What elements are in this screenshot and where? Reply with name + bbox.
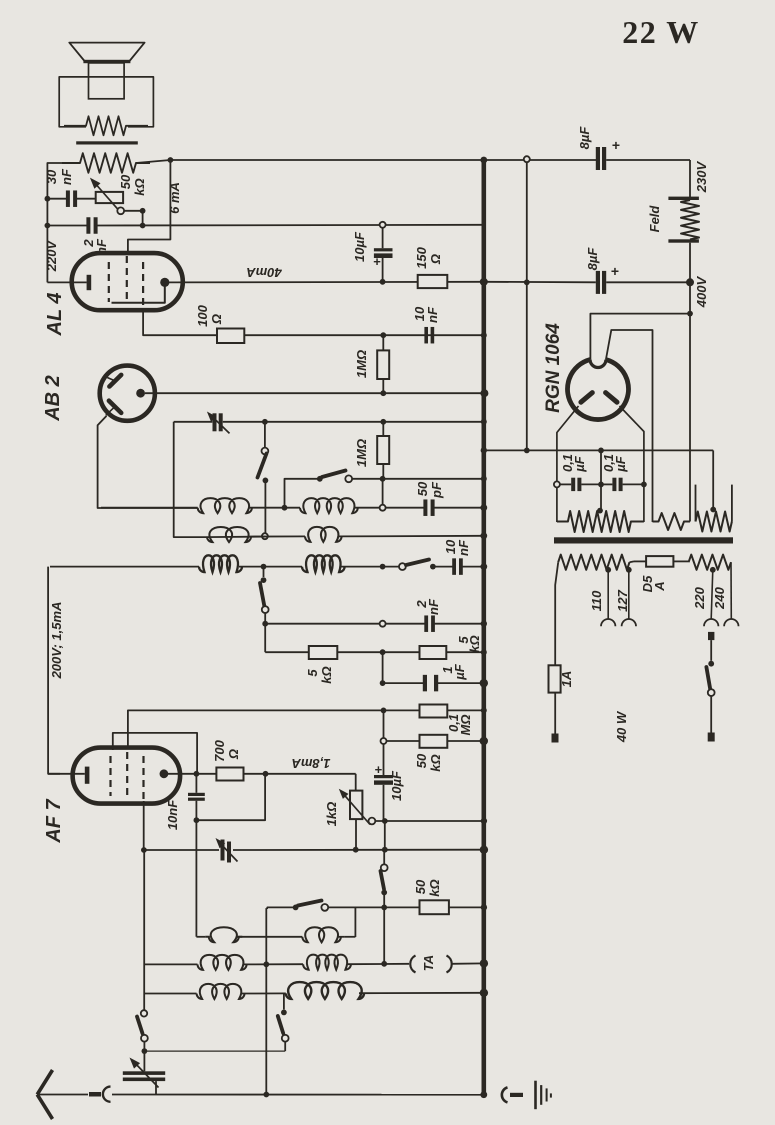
svg-text:kΩ: kΩ	[427, 879, 442, 896]
switch S4 below row C	[263, 567, 265, 577]
svg-text:50: 50	[415, 481, 430, 496]
bus node row K	[480, 989, 488, 997]
svg-text:MΩ: MΩ	[458, 715, 473, 736]
wire row D	[265, 623, 424, 625]
wire det row left corner	[266, 907, 268, 909]
coil L6b	[286, 982, 364, 999]
svg-text:50: 50	[413, 879, 428, 894]
bus node 50k	[480, 737, 488, 745]
tube AF7 anode node	[160, 769, 169, 778]
svg-text:kΩ: kΩ	[319, 666, 334, 683]
svg-text:1MΩ: 1MΩ	[354, 350, 369, 378]
node row J mid	[263, 961, 269, 967]
tube AF7 grid3 dashed	[142, 756, 144, 800]
tube AF7 grid1 dashed	[109, 756, 111, 796]
node heater mid	[524, 448, 530, 454]
node det row	[381, 905, 387, 911]
transformer primary winding left	[558, 555, 629, 570]
node AF7 anode junction	[194, 771, 200, 777]
svg-text:nF: nF	[426, 598, 441, 615]
wire 2nF row to bus	[47, 225, 87, 227]
tube AF7 envelope	[73, 748, 181, 804]
wire lower left vertical	[143, 850, 145, 1010]
svg-text:240: 240	[712, 586, 727, 609]
ground connector	[502, 1087, 508, 1102]
wire row K left stub	[144, 993, 196, 995]
resistor R 50k diode load	[420, 900, 449, 914]
wire anode lead right	[620, 406, 644, 522]
svg-text:+: +	[375, 762, 383, 777]
tube AL4 grid 1 dashed	[108, 262, 110, 302]
bus chassis line	[481, 159, 486, 1096]
output transformer primary winding	[62, 153, 150, 173]
loudspeaker diaphragm bar	[83, 60, 130, 63]
node 0.1uF centre	[598, 482, 604, 488]
wire 10nF bypass loop	[196, 777, 265, 821]
svg-text:6 mA: 6 mA	[167, 182, 182, 214]
wire heater rail horizontal	[484, 449, 713, 451]
potentiometer R 50k arrow	[94, 182, 121, 212]
node anode cap left	[554, 481, 560, 487]
tube AL4 cathode	[87, 275, 92, 290]
resistor R 100 ohm	[217, 329, 244, 344]
svg-text:8µF: 8µF	[585, 247, 600, 271]
svg-text:µF: µF	[613, 455, 628, 472]
tube RGN1064 filament notch	[590, 360, 606, 368]
wire wiper row to bus	[375, 820, 484, 822]
wire oscillator top row	[174, 421, 213, 423]
wire 230V right leg	[689, 160, 691, 197]
bus node heater	[481, 447, 487, 453]
wire AF7 anode row	[168, 773, 216, 775]
transformer HV winding	[557, 511, 644, 532]
svg-text:200V; 1,5mA: 200V; 1,5mA	[49, 602, 64, 680]
tap 240	[730, 562, 732, 618]
resistor R 5k right	[420, 646, 447, 659]
tube AL4 anode node	[160, 278, 169, 287]
node wiper junction	[140, 208, 146, 214]
node switch S1 top	[262, 419, 268, 425]
capacitor C 2nF IF	[424, 615, 428, 632]
svg-text:RGN 1064: RGN 1064	[543, 323, 564, 413]
svg-text:1,8mA: 1,8mA	[291, 756, 330, 771]
bus node row D	[481, 621, 487, 627]
wire 6mA grid feed	[128, 160, 170, 255]
wire row F AVC	[128, 710, 484, 748]
output transformer core	[76, 141, 138, 144]
switch S6	[293, 905, 299, 911]
trimmer capacitor padding	[221, 840, 225, 861]
potentiometer R 50k body	[96, 192, 123, 203]
coil L6a	[197, 984, 245, 999]
bus node 1uF	[480, 679, 488, 687]
capacitor C 10uF cathode	[374, 775, 393, 778]
wire row C (osc)	[50, 566, 199, 568]
wire TA to bus	[452, 962, 484, 964]
svg-text:Feld: Feld	[647, 205, 662, 233]
tap 127	[626, 567, 632, 573]
transformer heater winding set	[696, 512, 732, 532]
capacitor C 0.1uF left	[560, 483, 571, 485]
svg-text:700: 700	[212, 739, 227, 761]
switch S2	[317, 476, 323, 482]
transformer primary winding right	[689, 555, 731, 570]
coil L1a	[198, 498, 252, 513]
node HT tap	[597, 508, 603, 514]
node 1M2 top	[380, 419, 386, 425]
node row J right	[381, 961, 387, 967]
svg-text:230V: 230V	[694, 160, 709, 193]
terminal TA right	[447, 956, 452, 973]
transformer heater winding RGN	[653, 513, 691, 530]
mains connector 220	[708, 632, 714, 640]
node bottom wire	[263, 1092, 269, 1098]
wire row A (IF grid)	[101, 507, 198, 509]
capacitor C 8uF lower	[484, 281, 596, 284]
node row C right	[380, 564, 386, 570]
svg-text:127: 127	[615, 589, 630, 611]
bus node wiper	[481, 818, 487, 824]
wire switch link row	[144, 1050, 285, 1052]
wire filament lead left	[590, 314, 690, 360]
node 700ohm right	[263, 771, 269, 777]
bus node row C	[480, 563, 487, 570]
wire HT centre tap	[600, 450, 602, 510]
svg-text:µF: µF	[572, 455, 587, 472]
wire 400V to winding	[689, 314, 691, 522]
wire 1uF row	[382, 652, 384, 683]
coil L4b	[302, 927, 341, 942]
loudspeaker voice coil winding	[64, 116, 148, 135]
svg-text:kΩ: kΩ	[467, 635, 482, 652]
capacitor C 10nF osc	[452, 558, 456, 575]
svg-text:150: 150	[414, 246, 429, 268]
capacitor C 8uF upper	[596, 147, 600, 170]
loudspeaker voice-coil box	[89, 63, 125, 99]
svg-text:nF: nF	[425, 306, 440, 323]
terminal mains left	[552, 734, 559, 743]
bus node 100ohm row	[481, 332, 487, 338]
switch S5 AVC	[381, 864, 388, 871]
ground symbol	[534, 1081, 537, 1110]
svg-text:1MΩ: 1MΩ	[354, 439, 369, 467]
wire det riser	[354, 907, 356, 937]
tap 220	[710, 567, 716, 573]
capacitor C 0.1uF right	[612, 478, 616, 491]
wire row G 50k	[381, 738, 387, 744]
coil L2a	[207, 527, 251, 542]
svg-text:AF 7: AF 7	[43, 798, 65, 843]
node row H left	[141, 847, 147, 853]
trimmer capacitor upper	[213, 413, 217, 431]
node heater rail	[524, 279, 530, 285]
svg-text:220V: 220V	[44, 239, 59, 272]
tube AL4 anode plate	[112, 286, 165, 303]
svg-text:Ω: Ω	[209, 314, 224, 325]
tube AF7 grid2 dashed	[126, 752, 128, 796]
bus node B+	[480, 278, 488, 286]
node row E mid	[380, 649, 386, 655]
node row A riser	[282, 505, 288, 511]
resistor R 150 ohm	[418, 275, 448, 288]
resistor R 700 ohm	[216, 768, 243, 781]
trimmer capacitor antenna	[143, 1051, 145, 1071]
bus node row A	[480, 504, 487, 511]
coil L2b	[305, 527, 342, 542]
wire AB2 anode to bus	[145, 392, 485, 394]
coil L3b	[302, 555, 345, 572]
node row D mid	[380, 621, 386, 627]
wire filament lead right	[606, 330, 653, 522]
bus node row H	[480, 846, 488, 854]
wire top horizontal to rectifier	[136, 160, 171, 163]
capacitor C 10nF anode	[424, 327, 428, 344]
node 1M bottom	[380, 390, 386, 396]
wire row E	[265, 651, 309, 653]
transformer core bar	[554, 537, 733, 543]
svg-text:8µF: 8µF	[577, 126, 592, 150]
tube AB2 diode plate lower	[109, 401, 121, 413]
wire row D to row E leg	[264, 624, 266, 653]
node 10uF bottom	[380, 279, 386, 285]
svg-text:10µF: 10µF	[352, 231, 367, 262]
svg-text:50: 50	[414, 753, 429, 768]
wire AL4 screen to 100ohm	[143, 308, 217, 335]
resistor R 1M lower	[377, 436, 389, 464]
svg-text:1A: 1A	[559, 671, 574, 688]
svg-text:pF: pF	[429, 481, 444, 499]
wire row B	[206, 536, 265, 539]
resistor R 50k decoupling	[420, 735, 448, 748]
bus node TA	[480, 959, 488, 967]
wire AL4 anode to bus	[169, 281, 484, 284]
tube AB2 diode plate upper	[109, 375, 121, 387]
node HT centre	[598, 448, 604, 454]
wire row H AVC line	[144, 849, 219, 851]
tube AL4 grid 3 dashed	[142, 262, 144, 308]
bus node row B	[480, 532, 487, 539]
resistor Feld field coil	[668, 197, 699, 200]
svg-text:100: 100	[195, 304, 210, 326]
coil L5a	[198, 955, 247, 970]
svg-text:40mA: 40mA	[246, 265, 282, 280]
node 50pF left	[380, 505, 386, 511]
wire AB2 cathode to band filter	[98, 416, 198, 508]
winding stub right	[731, 485, 733, 522]
svg-text:kΩ: kΩ	[132, 178, 147, 195]
svg-text:AL 4: AL 4	[44, 293, 66, 337]
svg-text:AB 2: AB 2	[42, 375, 64, 422]
wire row I	[196, 936, 205, 938]
potentiometer R 50k wiper contact	[117, 207, 124, 214]
wire top row left leg	[174, 422, 206, 537]
coil L3a	[199, 555, 242, 572]
wire AF7 grid3 to row H	[143, 801, 145, 850]
svg-text:+: +	[611, 263, 619, 279]
bus node osc top	[481, 419, 487, 425]
capacitor C 1uF	[423, 675, 427, 692]
fuse 1A lead	[555, 562, 558, 665]
resistor R 0.1M	[420, 705, 448, 718]
svg-text:+: +	[373, 254, 381, 269]
svg-text:30: 30	[44, 169, 59, 184]
tube AL4 envelope	[72, 253, 183, 310]
capacitor C 10uF electrolytic	[374, 248, 393, 251]
wire lower right vertical	[265, 908, 267, 1094]
tube AB2 anode node	[136, 389, 145, 398]
svg-text:110: 110	[589, 590, 604, 611]
wire switch S2 row	[285, 479, 320, 508]
bus node row F	[481, 707, 487, 713]
node 10nF bottom	[194, 817, 200, 823]
loudspeaker horn	[69, 43, 144, 61]
capacitor C 2nF	[86, 217, 90, 234]
svg-text:A: A	[652, 581, 667, 591]
bus node det	[481, 904, 487, 910]
tube RGN1064 anode left	[581, 393, 592, 403]
tube AB2 envelope	[100, 366, 155, 421]
svg-text:Ω: Ω	[226, 749, 241, 760]
svg-text:Ω: Ω	[428, 254, 443, 265]
wire AF7 screen loop	[113, 733, 197, 774]
svg-text:10nF: 10nF	[165, 799, 180, 830]
svg-text:1kΩ: 1kΩ	[324, 802, 339, 827]
svg-text:40 W: 40 W	[614, 710, 629, 743]
node 100ohm / 1M junction	[380, 332, 386, 338]
potentiometer R 1k	[355, 774, 357, 791]
switch S3	[399, 563, 406, 570]
resistor R 5k left	[309, 646, 338, 659]
winding stub left	[695, 485, 697, 522]
antenna symbol	[37, 1070, 52, 1095]
coil L1b	[300, 498, 358, 513]
loudspeaker magnet box	[59, 77, 153, 127]
svg-text:µF: µF	[452, 663, 467, 680]
tube RGN1064 envelope	[567, 360, 628, 420]
svg-text:nF: nF	[59, 168, 74, 185]
wire row F to 10uF2	[383, 710, 385, 737]
fuse 1A	[549, 665, 561, 692]
wire 100ohm to bus	[244, 334, 483, 336]
node heater centre tap	[712, 450, 714, 509]
node 30nF row left	[45, 196, 51, 202]
switch S8 antenna 2	[283, 993, 285, 1009]
svg-text:+: +	[612, 137, 620, 153]
fuse D5A	[630, 560, 635, 563]
svg-text:50: 50	[118, 174, 133, 189]
terminal TA left	[410, 956, 415, 973]
tube RGN1064 anode right	[606, 393, 617, 403]
wire 200V cathode line	[48, 567, 60, 774]
coil L5b	[303, 955, 351, 970]
switch S7 antenna	[141, 1010, 147, 1016]
switch S1 wave band	[264, 424, 266, 448]
node S2/1M2	[380, 476, 386, 482]
wire 30nF row	[47, 198, 66, 200]
bus node top	[480, 157, 487, 164]
node output transformer / 6mA	[168, 157, 174, 163]
node row C switch	[261, 564, 267, 570]
antenna connector	[89, 1092, 101, 1097]
coil L4a	[205, 927, 242, 942]
node anode cap right	[641, 482, 647, 488]
wire 220V vertical	[47, 163, 80, 282]
bus node S2 row	[481, 476, 487, 482]
tap 110	[605, 567, 611, 573]
capacitor C 10nF coupling	[195, 774, 197, 793]
wire row 50k det	[267, 906, 296, 908]
tube AF7 cathode	[85, 767, 90, 784]
tube AL4 grid 2 dashed	[126, 256, 128, 302]
svg-text:10µF: 10µF	[389, 770, 404, 801]
svg-text:400V: 400V	[694, 275, 709, 308]
node 10uF top	[380, 222, 386, 228]
node 2nF row left	[45, 223, 51, 229]
bus node bottom	[480, 1091, 487, 1098]
svg-text:5: 5	[305, 669, 320, 677]
wire wiper to 2nF row	[124, 210, 142, 212]
wire anode lead left	[557, 406, 579, 522]
wire bottom ground row	[112, 1094, 484, 1096]
wire heater drop	[526, 162, 528, 450]
svg-text:22 W: 22 W	[622, 14, 699, 50]
switch S9 mains	[708, 661, 714, 667]
svg-text:kΩ: kΩ	[428, 754, 443, 771]
svg-text:TA: TA	[421, 955, 436, 971]
node 400V	[686, 278, 694, 286]
node row H mid	[353, 847, 359, 853]
node heater tap	[524, 156, 530, 162]
wire Feld to 400V	[689, 243, 691, 314]
node filament 400V	[687, 311, 693, 317]
node row F mid	[381, 708, 387, 714]
bus node AB2	[480, 389, 488, 397]
resistor R 1M upper	[377, 350, 389, 379]
bus node row E	[481, 649, 487, 655]
capacitor C 30nF	[66, 190, 70, 207]
wire row J left stub	[144, 963, 197, 965]
svg-text:220: 220	[692, 586, 707, 609]
svg-text:nF: nF	[456, 539, 471, 556]
capacitor C 50pF	[423, 499, 427, 516]
terminal mains right	[708, 733, 715, 742]
